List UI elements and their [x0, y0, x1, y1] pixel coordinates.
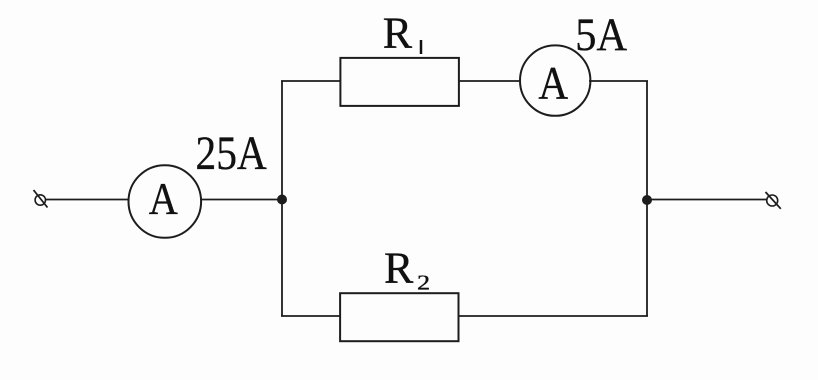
svg-text:5A: 5A	[575, 8, 627, 61]
svg-text:A: A	[149, 175, 178, 225]
svg-text:2: 2	[417, 272, 430, 295]
svg-text:R: R	[383, 9, 413, 58]
svg-text:A: A	[538, 57, 568, 109]
svg-text:25A: 25A	[196, 126, 268, 180]
svg-text:R: R	[384, 244, 414, 293]
